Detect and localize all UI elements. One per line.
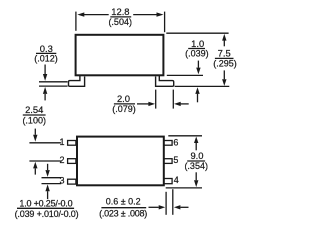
svg-text:1.0 +0.25/-0.0: 1.0 +0.25/-0.0	[19, 198, 72, 208]
svg-text:4: 4	[174, 175, 179, 185]
svg-text:0.3: 0.3	[40, 43, 53, 54]
svg-text:5: 5	[173, 155, 178, 165]
svg-text:0.6 ± 0.2: 0.6 ± 0.2	[106, 197, 141, 207]
svg-text:2.0: 2.0	[117, 93, 130, 104]
svg-text:(.504): (.504)	[108, 17, 132, 27]
svg-text:1.0: 1.0	[191, 38, 204, 49]
svg-text:6: 6	[173, 138, 178, 148]
svg-text:2.54: 2.54	[25, 104, 43, 115]
svg-text:(.354): (.354)	[184, 161, 208, 171]
svg-text:12.8: 12.8	[111, 6, 129, 17]
svg-text:2: 2	[59, 155, 64, 165]
svg-text:(.295): (.295)	[213, 59, 237, 69]
svg-text:(.100): (.100)	[22, 115, 46, 125]
svg-text:3: 3	[59, 175, 64, 185]
svg-text:7.5: 7.5	[218, 48, 231, 59]
svg-text:(.079): (.079)	[112, 104, 136, 114]
svg-text:(.039 +.010/-0.0): (.039 +.010/-0.0)	[15, 209, 79, 219]
svg-text:(.012): (.012)	[34, 54, 58, 64]
svg-text:(.023 ± .008): (.023 ± .008)	[99, 208, 147, 218]
svg-text:1: 1	[59, 137, 64, 147]
svg-text:9.0: 9.0	[190, 150, 203, 161]
svg-text:(.039): (.039)	[185, 49, 209, 59]
